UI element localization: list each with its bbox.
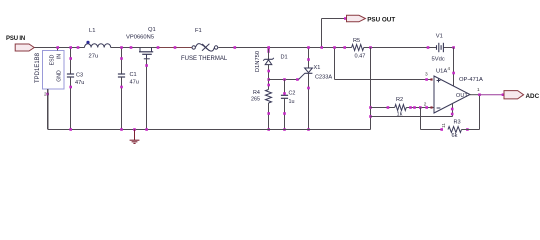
junction X1 anode	[307, 46, 310, 61]
wire gate rail D1 to X1	[269, 79, 299, 81]
svg-text:5Vdc: 5Vdc	[432, 57, 445, 63]
svg-text:OP-471A: OP-471A	[459, 77, 483, 83]
wire ground bus corner left	[47, 89, 49, 130]
junction R3 left pin	[440, 128, 443, 131]
junction PSU OUT riser	[320, 46, 323, 49]
junction R5 pins	[343, 46, 371, 49]
capacitor C2 1u	[281, 80, 296, 130]
wire main bus R5 to battery	[364, 47, 437, 49]
junction R4 ground	[267, 128, 270, 131]
svg-text:VP0660N5: VP0660N5	[126, 35, 154, 41]
svg-text:1: 1	[477, 87, 480, 93]
wire main bus L1 to Q1	[111, 47, 158, 49]
junction D1 R4 gate node	[267, 78, 270, 86]
wire plus input tap	[335, 48, 433, 80]
junction output node	[478, 93, 481, 96]
pin 11 label	[441, 123, 447, 128]
svg-text:U1A: U1A	[436, 69, 447, 75]
svg-text:Q1: Q1	[148, 27, 156, 33]
svg-text:X1: X1	[314, 65, 321, 71]
junction X1 ground	[307, 128, 310, 131]
svg-text:R3: R3	[454, 120, 461, 126]
wire main bus Q1 to fuse	[158, 47, 192, 49]
svg-text:F1: F1	[195, 28, 202, 34]
op-amp U1A OP-471A	[434, 69, 483, 114]
junction plus input pin	[425, 78, 432, 81]
thyristor X1 C233A	[299, 48, 333, 130]
ground symbol	[130, 128, 140, 143]
svg-text:C1: C1	[130, 72, 137, 78]
svg-text:2: 2	[424, 102, 427, 108]
wire Q1 gate to ground bus	[146, 59, 148, 130]
junction Q1 source pin	[157, 46, 160, 49]
svg-text:3: 3	[425, 72, 428, 78]
wire output to ADC	[480, 94, 505, 96]
junction L1 left pin	[77, 46, 80, 49]
wire chip IN pin to bus	[57, 48, 59, 51]
pin 2 label chip	[44, 92, 47, 97]
junction ADC pin tip	[502, 93, 505, 96]
junction X1 gate pin tip	[296, 78, 299, 81]
svg-text:4: 4	[448, 66, 451, 71]
wire chip GND pin down	[47, 89, 49, 130]
svg-text:TPD1E1B8: TPD1E1B8	[35, 52, 41, 83]
svg-text:IN: IN	[57, 54, 63, 59]
battery V1 5Vdc	[432, 34, 445, 63]
resistor R5 0.47	[352, 38, 366, 60]
svg-text:C233A: C233A	[315, 75, 332, 81]
wire PSU OUT riser	[322, 19, 347, 48]
junction plus tap top	[333, 46, 336, 49]
junction R4 bottom pin tip	[267, 112, 270, 115]
svg-text:47u: 47u	[130, 80, 139, 86]
port PSU OUT	[347, 15, 396, 23]
svg-text:1u: 1u	[289, 99, 295, 105]
svg-text:R2: R2	[396, 97, 403, 103]
junction C2 pin tips	[283, 92, 286, 115]
resistor R4 265	[251, 90, 272, 104]
junction V- pin tips	[451, 108, 454, 116]
junction C2 top tee	[283, 78, 286, 81]
junction minus input node	[409, 106, 432, 109]
wire minus input rail	[371, 107, 434, 109]
diode D1 zener D1N750	[255, 47, 288, 80]
resistor R3 6k	[448, 120, 462, 140]
capacitor C1	[118, 48, 139, 130]
svg-text:ADC: ADC	[526, 93, 540, 100]
junction chip GND pin tip	[46, 93, 49, 96]
wire feedback drop	[421, 108, 442, 130]
junction X1 cathode pin tip	[307, 87, 310, 90]
junction Q1 gate pin tip	[145, 64, 148, 67]
junction C3 top	[69, 46, 72, 49]
svg-text:C3: C3	[76, 73, 83, 79]
wire ground vertical B	[370, 48, 372, 130]
svg-text:0.47: 0.47	[355, 54, 366, 60]
junction Q1 drain pin	[130, 46, 133, 49]
wire op-amp V- drop	[371, 104, 453, 117]
svg-text:27u: 27u	[89, 54, 99, 60]
junction vertical B rail	[369, 106, 372, 118]
capacitor C3	[67, 48, 84, 130]
pin 2 label opamp	[424, 102, 427, 108]
resistor R2 1k	[395, 97, 407, 118]
wire battery to V+ node	[443, 47, 453, 49]
fuse F1 thermal	[181, 28, 228, 62]
junction C3 pin tips	[69, 57, 72, 88]
junction D1 anode pin tip	[267, 70, 270, 73]
junction C1 top	[120, 46, 123, 49]
wire main bus fuse to R5	[218, 47, 351, 49]
pin 1 label	[477, 87, 480, 93]
junction battery pins	[427, 46, 455, 49]
junction chip IN	[56, 46, 59, 49]
wire main bus PSU IN to L1	[34, 47, 84, 49]
wire D1 to R4	[268, 80, 270, 90]
junction D1 top	[267, 46, 270, 49]
junction R2 left pin	[387, 106, 390, 109]
junction fuse left pin	[174, 46, 177, 49]
ESD chip U? TPD1E1B8	[35, 51, 64, 90]
junction C2 ground	[283, 128, 286, 131]
svg-text:R5: R5	[353, 38, 360, 44]
wire output	[470, 94, 480, 96]
svg-text:265: 265	[251, 97, 260, 103]
wire R3 to output riser	[462, 95, 480, 130]
pin 3 label	[425, 72, 428, 78]
wire R4 to ground bus	[268, 103, 270, 130]
junction fuse right pin	[234, 46, 237, 49]
junction R3 right pin	[466, 128, 469, 131]
junction PSU OUT pin tip	[344, 17, 347, 20]
inductor L1	[85, 28, 111, 60]
junction V+ pin tip	[452, 72, 455, 75]
svg-text:6k: 6k	[452, 133, 458, 139]
svg-text:L1: L1	[89, 28, 95, 34]
svg-text:OUT: OUT	[456, 93, 468, 99]
junction C1 pin tips	[120, 57, 123, 88]
wire ground bus	[48, 129, 371, 131]
svg-text:C2: C2	[289, 91, 296, 97]
pin 4 label	[448, 66, 451, 71]
svg-text:D1N750: D1N750	[255, 51, 261, 72]
svg-text:FUSE THERMAL: FUSE THERMAL	[181, 56, 228, 62]
svg-text:PSU IN: PSU IN	[6, 36, 25, 42]
port ADC	[504, 91, 540, 100]
transistor Q1 VP0660N5	[126, 27, 156, 59]
port PSU IN	[6, 36, 34, 51]
junction ground bus	[69, 128, 148, 131]
svg-text:R4: R4	[253, 90, 260, 96]
svg-text:V1: V1	[436, 34, 443, 40]
svg-text:GND: GND	[57, 70, 63, 82]
wire op-amp V+ drop	[453, 48, 455, 87]
svg-text:D1: D1	[281, 55, 288, 61]
svg-text:11: 11	[441, 123, 447, 128]
svg-text:47u: 47u	[75, 80, 84, 86]
svg-text:PSU OUT: PSU OUT	[367, 16, 395, 23]
svg-text:ESD: ESD	[50, 54, 56, 65]
